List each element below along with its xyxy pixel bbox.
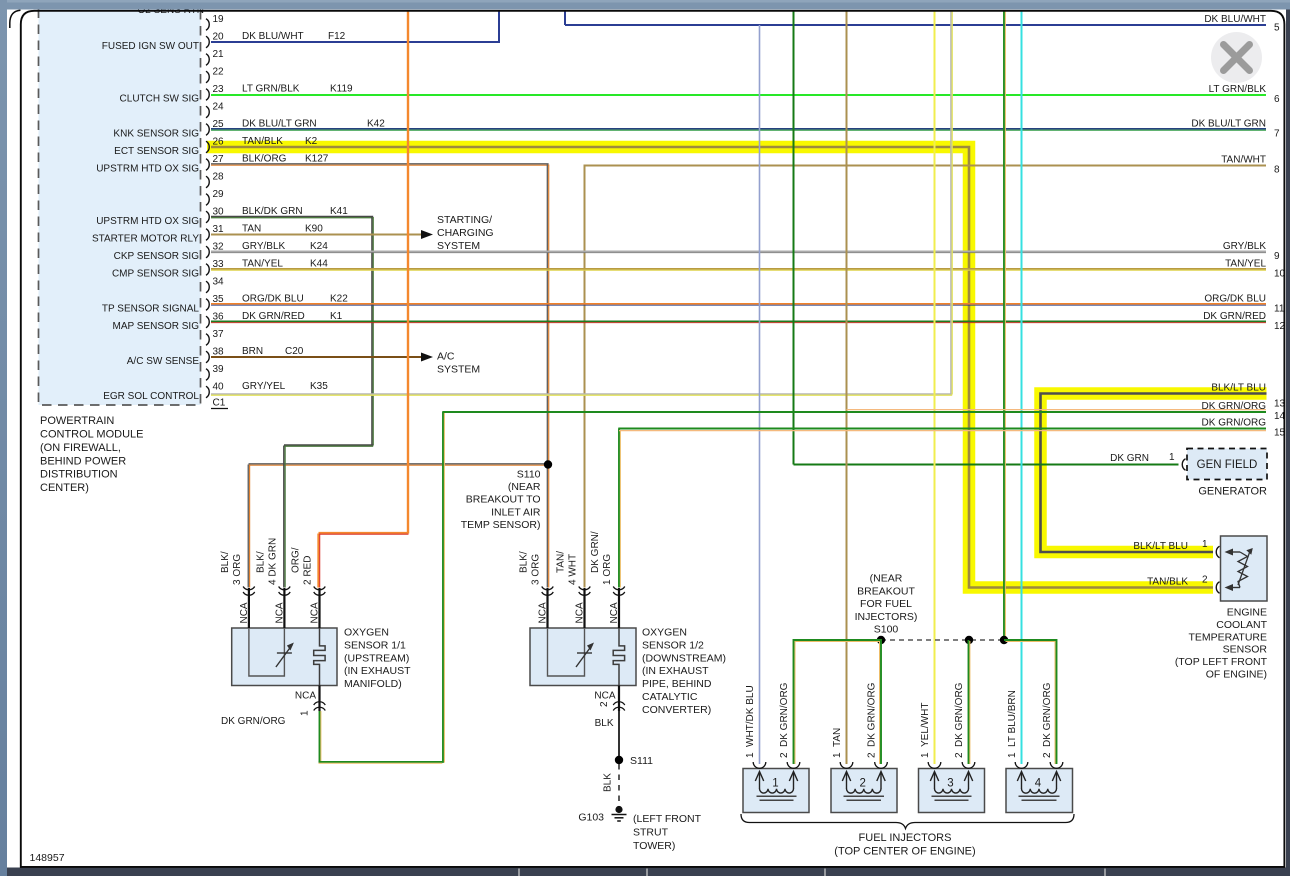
svg-text:GRY/BLK: GRY/BLK — [1223, 241, 1266, 252]
svg-text:NCA: NCA — [295, 691, 316, 702]
svg-text:(TOP LEFT FRONT: (TOP LEFT FRONT — [1175, 656, 1268, 668]
svg-text:3 ORG: 3 ORG — [232, 554, 243, 585]
svg-text:STARTER MOTOR RLY: STARTER MOTOR RLY — [92, 233, 199, 244]
svg-text:DK BLU/LT GRN: DK BLU/LT GRN — [242, 119, 317, 130]
svg-text:NCA: NCA — [239, 602, 250, 623]
svg-text:STARTING/: STARTING/ — [437, 214, 492, 226]
svg-text:2: 2 — [954, 752, 965, 758]
svg-text:BLK/LT BLU: BLK/LT BLU — [1211, 383, 1266, 394]
svg-text:MANIFOLD): MANIFOLD) — [344, 678, 402, 690]
svg-text:23: 23 — [213, 84, 225, 95]
svg-text:2: 2 — [1042, 752, 1053, 758]
svg-text:2: 2 — [1202, 575, 1208, 586]
svg-text:K1: K1 — [330, 311, 343, 322]
svg-text:DK GRN/: DK GRN/ — [590, 531, 601, 573]
svg-text:K41: K41 — [330, 206, 348, 217]
svg-text:FUSED IGN SW OUT: FUSED IGN SW OUT — [102, 41, 199, 52]
svg-text:MAP SENSOR SIG: MAP SENSOR SIG — [112, 321, 199, 332]
svg-text:BLK/LT BLU: BLK/LT BLU — [1133, 541, 1188, 552]
svg-text:SENSOR 1/2: SENSOR 1/2 — [642, 639, 704, 651]
svg-text:DK GRN/RED: DK GRN/RED — [1203, 311, 1266, 322]
svg-text:(NEAR: (NEAR — [870, 573, 903, 585]
svg-text:DK GRN/ORG: DK GRN/ORG — [1202, 418, 1267, 429]
svg-text:ECT SENSOR SIG: ECT SENSOR SIG — [114, 146, 199, 157]
svg-text:5: 5 — [1274, 23, 1280, 34]
svg-text:DK GRN/ORG: DK GRN/ORG — [1042, 682, 1053, 747]
svg-text:NCA: NCA — [609, 602, 620, 623]
svg-text:TAN/: TAN/ — [556, 551, 567, 573]
svg-text:9: 9 — [1274, 251, 1280, 262]
svg-text:1: 1 — [745, 752, 756, 758]
svg-text:DK BLU/WHT: DK BLU/WHT — [1204, 14, 1266, 25]
svg-text:S111: S111 — [630, 755, 653, 767]
svg-text:STRUT: STRUT — [633, 826, 669, 838]
svg-text:F12: F12 — [328, 31, 346, 42]
svg-text:K42: K42 — [367, 119, 385, 130]
svg-text:TAN/BLK: TAN/BLK — [1147, 577, 1188, 588]
svg-text:(TOP CENTER OF ENGINE): (TOP CENTER OF ENGINE) — [834, 846, 975, 858]
svg-text:22: 22 — [213, 67, 225, 78]
svg-text:ORG/DK BLU: ORG/DK BLU — [1204, 294, 1266, 305]
svg-text:CMP SENSOR SIG: CMP SENSOR SIG — [112, 268, 199, 279]
svg-text:CONVERTER): CONVERTER) — [642, 704, 711, 716]
svg-text:BREAKOUT TO: BREAKOUT TO — [466, 494, 541, 506]
svg-text:2: 2 — [867, 752, 878, 758]
svg-text:TAN/YEL: TAN/YEL — [1225, 259, 1266, 270]
svg-text:CATALYTIC: CATALYTIC — [642, 691, 698, 703]
svg-text:FOR FUEL: FOR FUEL — [860, 598, 912, 610]
svg-text:TAN/YEL: TAN/YEL — [242, 259, 283, 270]
svg-text:1: 1 — [1007, 752, 1018, 758]
svg-text:DISTRIBUTION: DISTRIBUTION — [40, 469, 118, 481]
svg-text:24: 24 — [213, 102, 225, 113]
svg-text:1 ORG: 1 ORG — [602, 554, 613, 585]
svg-text:SENSOR 1/1: SENSOR 1/1 — [344, 639, 406, 651]
svg-text:K119: K119 — [330, 84, 353, 95]
svg-text:TEMP SENSOR): TEMP SENSOR) — [461, 519, 541, 531]
svg-text:A/C SW SENSE: A/C SW SENSE — [127, 356, 200, 367]
svg-text:(IN EXHAUST: (IN EXHAUST — [642, 665, 709, 677]
svg-text:(LEFT FRONT: (LEFT FRONT — [633, 813, 702, 825]
svg-text:TP SENSOR SIGNAL: TP SENSOR SIGNAL — [102, 303, 200, 314]
svg-text:DK GRN/ORG: DK GRN/ORG — [779, 682, 790, 747]
svg-text:SYSTEM: SYSTEM — [437, 240, 480, 252]
svg-text:CLUTCH SW SIG: CLUTCH SW SIG — [120, 93, 200, 104]
svg-text:DK BLU/WHT: DK BLU/WHT — [242, 31, 304, 42]
svg-text:K127: K127 — [305, 154, 329, 165]
svg-text:TAN: TAN — [242, 224, 261, 235]
svg-text:28: 28 — [213, 172, 225, 183]
svg-text:1: 1 — [772, 778, 778, 790]
svg-text:19: 19 — [213, 14, 225, 25]
svg-text:BLK: BLK — [603, 773, 614, 792]
svg-text:GRY/YEL: GRY/YEL — [242, 381, 286, 392]
svg-text:DK BLU/LT GRN: DK BLU/LT GRN — [1191, 119, 1266, 130]
svg-text:4 WHT: 4 WHT — [568, 554, 579, 585]
svg-text:C20: C20 — [285, 346, 304, 357]
svg-text:CKP SENSOR SIG: CKP SENSOR SIG — [114, 251, 200, 262]
svg-text:20: 20 — [213, 32, 225, 43]
svg-text:OXYGEN: OXYGEN — [344, 627, 389, 639]
svg-text:DK GRN/RED: DK GRN/RED — [242, 311, 305, 322]
svg-text:LT GRN/BLK: LT GRN/BLK — [1209, 84, 1267, 95]
svg-text:BLK/ORG: BLK/ORG — [242, 154, 287, 165]
svg-text:TAN/BLK: TAN/BLK — [242, 136, 283, 147]
svg-text:INJECTORS): INJECTORS) — [855, 611, 918, 623]
svg-text:2: 2 — [779, 752, 790, 758]
svg-text:K90: K90 — [305, 224, 323, 235]
svg-text:LT BLU/BRN: LT BLU/BRN — [1007, 690, 1018, 747]
svg-text:GEN FIELD: GEN FIELD — [1197, 459, 1258, 471]
svg-text:26: 26 — [213, 137, 225, 148]
svg-text:BREAKOUT: BREAKOUT — [857, 585, 915, 597]
svg-text:SENSOR: SENSOR — [1223, 644, 1268, 656]
svg-text:1: 1 — [1169, 452, 1175, 463]
svg-text:31: 31 — [213, 224, 225, 235]
svg-text:K22: K22 — [330, 294, 348, 305]
svg-text:8: 8 — [1274, 165, 1280, 176]
svg-text:(UPSTREAM): (UPSTREAM) — [344, 652, 409, 664]
svg-text:2 RED: 2 RED — [303, 556, 314, 585]
svg-text:S110: S110 — [517, 469, 541, 481]
svg-text:DK GRN/ORG: DK GRN/ORG — [867, 682, 878, 747]
svg-text:OXYGEN: OXYGEN — [642, 627, 687, 639]
svg-text:WHT/DK BLU: WHT/DK BLU — [745, 685, 756, 747]
svg-text:K35: K35 — [310, 381, 328, 392]
svg-text:BLK/: BLK/ — [519, 551, 530, 573]
svg-text:NCA: NCA — [310, 602, 321, 623]
svg-text:DK GRN/ORG: DK GRN/ORG — [221, 716, 286, 727]
svg-text:PIPE, BEHIND: PIPE, BEHIND — [642, 678, 712, 690]
svg-text:KNK SENSOR SIG: KNK SENSOR SIG — [113, 128, 199, 139]
svg-text:BLK/DK GRN: BLK/DK GRN — [242, 206, 303, 217]
svg-text:40: 40 — [213, 382, 225, 393]
svg-text:(ON FIREWALL,: (ON FIREWALL, — [40, 442, 121, 454]
svg-text:4: 4 — [1035, 778, 1042, 790]
svg-text:COOLANT: COOLANT — [1216, 619, 1267, 631]
svg-text:1: 1 — [920, 752, 931, 758]
svg-text:CONTROL MODULE: CONTROL MODULE — [40, 429, 144, 441]
svg-text:UPSTRM HTD OX SIG: UPSTRM HTD OX SIG — [96, 216, 199, 227]
svg-text:CENTER): CENTER) — [40, 482, 89, 494]
svg-text:K24: K24 — [310, 241, 328, 252]
svg-text:LT GRN/BLK: LT GRN/BLK — [242, 84, 300, 95]
svg-text:11: 11 — [1274, 304, 1285, 315]
svg-text:FUEL INJECTORS: FUEL INJECTORS — [859, 832, 952, 844]
svg-text:DK GRN/ORG: DK GRN/ORG — [954, 682, 965, 747]
svg-text:TAN: TAN — [832, 728, 843, 747]
svg-text:CHARGING: CHARGING — [437, 227, 494, 239]
svg-text:2: 2 — [599, 701, 610, 707]
svg-text:C1: C1 — [213, 398, 226, 409]
svg-text:G103: G103 — [578, 812, 604, 824]
svg-text:YEL/WHT: YEL/WHT — [920, 703, 931, 747]
svg-text:1: 1 — [832, 752, 843, 758]
svg-text:ENGINE: ENGINE — [1227, 607, 1267, 619]
svg-text:NCA: NCA — [575, 602, 586, 623]
svg-text:37: 37 — [213, 329, 225, 340]
svg-text:NCA: NCA — [594, 691, 615, 702]
svg-text:NCA: NCA — [274, 602, 285, 623]
svg-text:21: 21 — [213, 49, 225, 60]
svg-text:NCA: NCA — [538, 602, 549, 623]
svg-text:POWERTRAIN: POWERTRAIN — [40, 415, 114, 427]
svg-text:OF ENGINE): OF ENGINE) — [1206, 669, 1267, 681]
svg-text:K44: K44 — [310, 259, 328, 270]
svg-text:BRN: BRN — [242, 346, 263, 357]
svg-text:(DOWNSTREAM): (DOWNSTREAM) — [642, 652, 726, 664]
svg-text:6: 6 — [1274, 94, 1280, 105]
svg-text:1: 1 — [300, 710, 311, 716]
svg-text:GENERATOR: GENERATOR — [1198, 486, 1267, 498]
svg-text:148957: 148957 — [30, 852, 65, 864]
svg-text:K2: K2 — [305, 136, 318, 147]
svg-text:BEHIND POWER: BEHIND POWER — [40, 455, 126, 467]
svg-text:BLK: BLK — [595, 718, 614, 729]
svg-text:7: 7 — [1274, 129, 1280, 140]
svg-text:29: 29 — [213, 189, 225, 200]
svg-text:DK GRN: DK GRN — [1110, 453, 1149, 464]
svg-text:S100: S100 — [874, 624, 899, 636]
svg-text:A/C: A/C — [437, 351, 455, 363]
svg-text:3: 3 — [947, 778, 953, 790]
svg-text:TOWER): TOWER) — [633, 840, 675, 852]
svg-text:BLK/: BLK/ — [220, 551, 231, 573]
svg-text:2: 2 — [860, 778, 866, 790]
svg-text:UPSTRM HTD OX SIG: UPSTRM HTD OX SIG — [96, 163, 199, 174]
svg-text:3 ORG: 3 ORG — [531, 554, 542, 585]
svg-text:GRY/BLK: GRY/BLK — [242, 241, 285, 252]
svg-text:34: 34 — [213, 277, 225, 288]
svg-text:SYSTEM: SYSTEM — [437, 364, 480, 376]
svg-text:TAN/WHT: TAN/WHT — [1221, 155, 1266, 166]
svg-text:39: 39 — [213, 364, 225, 375]
svg-text:EGR SOL CONTROL: EGR SOL CONTROL — [103, 391, 199, 402]
svg-text:4 DK GRN: 4 DK GRN — [267, 538, 278, 585]
svg-text:DK GRN/ORG: DK GRN/ORG — [1202, 401, 1267, 412]
svg-text:1: 1 — [1202, 539, 1208, 550]
svg-text:38: 38 — [213, 347, 225, 358]
svg-text:TEMPERATURE: TEMPERATURE — [1188, 631, 1267, 643]
svg-text:(NEAR: (NEAR — [508, 481, 541, 493]
svg-text:INLET AIR: INLET AIR — [491, 506, 541, 518]
svg-text:BLK/: BLK/ — [255, 551, 266, 573]
svg-text:ORG/: ORG/ — [291, 547, 302, 573]
svg-text:(IN EXHAUST: (IN EXHAUST — [344, 665, 411, 677]
svg-text:ORG/DK BLU: ORG/DK BLU — [242, 294, 304, 305]
